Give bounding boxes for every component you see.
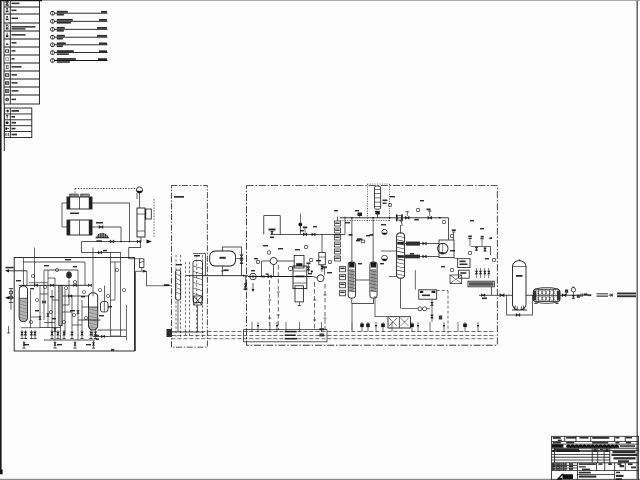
roots blower V1 <box>533 288 560 304</box>
reactor R1 <box>293 266 307 289</box>
knockout drum B4 <box>210 251 236 266</box>
feed arrow 2 <box>5 296 14 299</box>
drum top loop pipe <box>222 247 241 276</box>
stream 7 name <box>57 58 76 60</box>
legend row 3 label <box>12 18 19 20</box>
misc piping main box <box>270 265 325 330</box>
tube exchanger column W3 <box>397 225 405 309</box>
jog valve <box>98 251 101 253</box>
air cooler W2 <box>67 220 92 235</box>
legend row 13 symbol <box>6 98 9 101</box>
stream 3 name <box>57 27 65 29</box>
stream 6 bubble <box>51 51 55 55</box>
outlet cross symbol <box>609 294 614 297</box>
feed label 1 <box>6 267 14 269</box>
id table row 3 symbol <box>5 122 8 124</box>
legend row 13 label <box>12 99 17 101</box>
twin column K4 <box>370 262 377 298</box>
rev row 1 text <box>552 451 554 452</box>
fan housing <box>438 240 454 258</box>
legend row 9 label <box>12 66 22 68</box>
drum bottom stem <box>221 266 229 276</box>
stream 4 name <box>57 35 65 37</box>
reactor bottom section <box>295 286 304 306</box>
feed arrow 1 <box>5 269 27 285</box>
pipe label smudge <box>414 219 419 221</box>
stream 7 bubble <box>51 59 55 63</box>
valve cluster near head tank <box>307 263 313 274</box>
riser cluster marks <box>349 234 374 243</box>
scrubber column K1 <box>176 270 181 300</box>
legend row 11 label <box>12 82 18 84</box>
utility sub box <box>244 330 328 342</box>
id table row 3 label <box>12 122 17 124</box>
legend tail line <box>3 104 5 151</box>
stream 4 value <box>97 35 107 37</box>
id table row 5 label <box>12 134 18 136</box>
horizontal tank B8 <box>415 270 436 299</box>
pump P3 <box>261 258 294 277</box>
vessel B2 <box>89 293 98 330</box>
stream 7 value <box>98 58 107 60</box>
stem valve on pipe 1 <box>405 212 409 219</box>
junction dots <box>120 241 130 243</box>
legend row 2 label <box>12 10 17 12</box>
stream 1 line <box>54 12 107 14</box>
bottom valve station dark <box>319 328 324 336</box>
feed vessel E2 <box>319 234 326 272</box>
project cell bold text <box>613 451 636 453</box>
id table row 1 symbol <box>6 110 9 112</box>
scrubber unit boundary box <box>171 186 207 348</box>
legend row 5 symbol <box>6 33 8 37</box>
label W2 <box>96 222 103 224</box>
side box E1 <box>146 209 152 219</box>
dark stub box <box>167 329 173 337</box>
stream 6 value <box>99 50 107 52</box>
valve V-a <box>110 240 114 243</box>
stream 2 bubble <box>51 19 55 23</box>
dashed signal line top <box>75 188 137 190</box>
left box instrument bubbles <box>30 269 126 324</box>
stream 5 line <box>54 44 107 46</box>
id table row 4 label <box>12 128 16 130</box>
stream list <box>51 11 108 63</box>
legend row 4 symbol <box>6 23 9 25</box>
W5 outlet to tank <box>479 287 497 299</box>
utility line 1 <box>171 331 495 333</box>
page bottom border <box>0 479 640 480</box>
pipe elbow down to fan <box>448 218 450 240</box>
legend row 10 symbol <box>5 74 8 77</box>
control valve FV <box>139 259 144 268</box>
main pipe mid <box>186 254 248 277</box>
pipe to tank <box>497 294 512 296</box>
misc small labels left <box>16 280 21 281</box>
logo Roehm <box>557 474 574 480</box>
top pipe risers <box>352 218 373 262</box>
title strip <box>552 445 563 448</box>
valve V-b <box>99 226 103 229</box>
pump skid <box>388 317 411 328</box>
lower instrument marks <box>340 268 344 269</box>
stream 5 value <box>99 43 107 45</box>
drain arrows <box>257 325 479 328</box>
sight glass fittings <box>9 288 13 303</box>
pipe B3 join <box>140 237 142 242</box>
pipe W1-W2 link <box>62 202 67 204</box>
stream 1 name <box>57 11 68 13</box>
title block revision texts <box>553 437 561 439</box>
box bottom tick <box>111 349 114 351</box>
main pipe valve <box>261 273 271 277</box>
pipe header h1 <box>82 241 141 243</box>
legend row 5 label <box>12 34 26 36</box>
pipe riser to P1 <box>139 193 141 208</box>
legend row 8 label <box>12 58 15 60</box>
drop valve below pipe <box>244 276 248 291</box>
stream 6 line <box>54 52 107 54</box>
column internals bar <box>59 286 62 326</box>
page left border foot <box>0 470 3 475</box>
stream 4 bubble <box>51 35 55 39</box>
bottom row texts <box>579 472 591 474</box>
drum loop valves <box>236 255 243 264</box>
legend row 6 symbol <box>6 43 9 44</box>
dashed instrument line <box>153 199 155 237</box>
legend row 3 symbol <box>6 19 8 20</box>
stream 2 value <box>99 19 107 21</box>
id table row 5 symbol <box>6 133 8 136</box>
utility line 2 <box>171 334 495 336</box>
stream 3 value <box>97 27 107 29</box>
id table row 4 symbol <box>5 127 7 129</box>
blower G1 <box>96 231 110 238</box>
fan top instrument <box>452 229 456 240</box>
instrument bubbles sprinkle <box>256 203 495 271</box>
vent vessel <box>375 186 388 218</box>
main process pipe <box>248 276 312 278</box>
pipe loop rectangle <box>264 216 280 235</box>
stream 7 line <box>54 60 107 62</box>
scrubber unit label <box>174 196 184 198</box>
jog marks <box>96 240 102 242</box>
reactor side instrument <box>289 267 293 271</box>
flow meter FI <box>250 273 256 292</box>
synthesis unit boundary box <box>247 186 498 346</box>
left box small valves <box>35 284 92 331</box>
tank drain U pipe <box>507 295 533 315</box>
buffer tank B5 <box>512 259 527 310</box>
B2 outlet assembly <box>93 332 127 340</box>
left unit boundary box <box>14 258 134 352</box>
left drain tees <box>7 303 11 334</box>
page top border dark segment <box>0 0 42 1</box>
drop line ticks <box>268 292 326 320</box>
legend row 10 label <box>12 74 18 76</box>
header arrow <box>147 240 153 244</box>
legend row 7 label <box>12 50 16 52</box>
header end valve <box>137 240 140 242</box>
rotameter circles <box>402 307 431 311</box>
stream 5 bubble <box>51 43 55 47</box>
pumps small main <box>382 229 388 260</box>
label W1 <box>70 213 79 215</box>
small labels main box <box>251 270 255 271</box>
separator box B6 <box>454 258 470 267</box>
dotted signal line below pipe <box>340 220 390 222</box>
stream 1 bubble <box>51 11 55 15</box>
connector label <box>164 284 170 286</box>
stream 2 name <box>57 19 73 21</box>
legend row 1 label <box>12 3 20 5</box>
page top border <box>0 0 640 2</box>
exchanger header jog <box>82 242 121 253</box>
legend row 12 symbol <box>5 90 8 93</box>
stream 6 name <box>57 50 74 52</box>
dashed sub box <box>437 291 448 336</box>
connector arrow <box>143 270 146 273</box>
stream 1 value <box>101 11 107 13</box>
page right border <box>637 0 638 480</box>
twin column K3 <box>348 262 355 298</box>
flex connector <box>597 294 609 297</box>
reactor head tank <box>294 255 304 268</box>
legend row 9 symbol <box>6 65 9 68</box>
legend row 1 symbol <box>6 2 9 6</box>
pump P1 bubble <box>137 187 143 193</box>
left box internal pipes <box>21 248 127 341</box>
stem valve on pipe 2 <box>427 209 432 220</box>
pipe W1 outlet <box>92 202 130 204</box>
pipe W2 outlet <box>92 226 121 228</box>
accumulator B2a <box>101 302 109 313</box>
legend row 8 symbol <box>6 58 9 61</box>
drain valves bottom row 2 <box>22 341 95 348</box>
stream 2 line <box>54 20 107 22</box>
valve cluster on loop <box>269 229 276 239</box>
ball valve riser <box>298 214 302 235</box>
right riser tees <box>468 236 492 247</box>
dashed signal drop <box>74 189 76 198</box>
vessel B1 <box>19 286 27 322</box>
exchanger bar W4a <box>405 242 439 245</box>
outlet label <box>617 293 636 295</box>
lower instrument boxes <box>340 267 346 296</box>
instrument stack <box>335 217 341 262</box>
legend row 4 label <box>12 26 36 28</box>
valve on mid pipe 2 <box>312 233 315 235</box>
pump P2 <box>66 271 72 285</box>
pipe tank to blower <box>526 294 533 296</box>
legend row 11 symbol <box>5 82 8 85</box>
exchanger bar W4b <box>405 255 439 258</box>
scrubber labels <box>176 264 182 265</box>
pipe spool flanges <box>396 214 403 226</box>
pump P4 <box>312 266 327 281</box>
valve outlet 1 <box>500 294 504 297</box>
crossed box <box>450 275 462 284</box>
reboiler W5 <box>468 281 494 287</box>
blower outlet instruments <box>560 287 591 298</box>
id table row 1 label <box>12 110 20 112</box>
stream 5 name <box>57 42 66 44</box>
separator box B7 <box>459 270 470 278</box>
tank B8 outlet <box>431 299 442 322</box>
id table row 2 symbol <box>6 115 8 118</box>
drain valves bottom <box>20 330 97 339</box>
utility line 3 <box>171 338 495 340</box>
scrubber column K2 <box>193 261 203 306</box>
page left border <box>0 0 2 474</box>
legend row 12 label <box>12 90 19 92</box>
drain valve U <box>516 314 520 317</box>
legend row 7 symbol <box>6 50 9 52</box>
utility labels <box>285 331 297 333</box>
drain assemblies <box>252 322 478 332</box>
separator column B3 <box>137 208 145 237</box>
stream 4 line <box>54 36 107 38</box>
connector line to mid <box>129 242 172 352</box>
angle valve dark <box>358 213 363 218</box>
main pipe left <box>19 284 89 286</box>
twin column U pipe <box>352 280 374 304</box>
rev header texts <box>554 449 579 450</box>
stream 3 bubble <box>51 27 55 31</box>
dashed internal lines scrubber <box>176 255 203 337</box>
instrument stack labels <box>335 223 340 224</box>
top pipe junction dots <box>351 217 391 219</box>
right header <box>471 246 490 255</box>
valve cluster right <box>476 268 490 278</box>
legend row 6 label <box>12 42 17 44</box>
id table row 2 label <box>12 116 16 118</box>
scrubber bottom fittings <box>171 300 204 332</box>
mid horizontal pipe <box>274 233 345 235</box>
actuated valve on mid pipe <box>303 227 308 236</box>
pipe junction dots right <box>389 217 441 219</box>
vent dashed box <box>367 184 389 221</box>
stream 3 line <box>54 28 107 30</box>
top long pipe <box>340 217 449 219</box>
instrument id table frame <box>4 108 32 138</box>
legend table frame <box>4 0 40 104</box>
legend row 2 symbol <box>6 11 8 12</box>
air cooler W1 <box>67 194 92 209</box>
approval cells texts <box>552 463 554 464</box>
title block <box>552 436 639 480</box>
